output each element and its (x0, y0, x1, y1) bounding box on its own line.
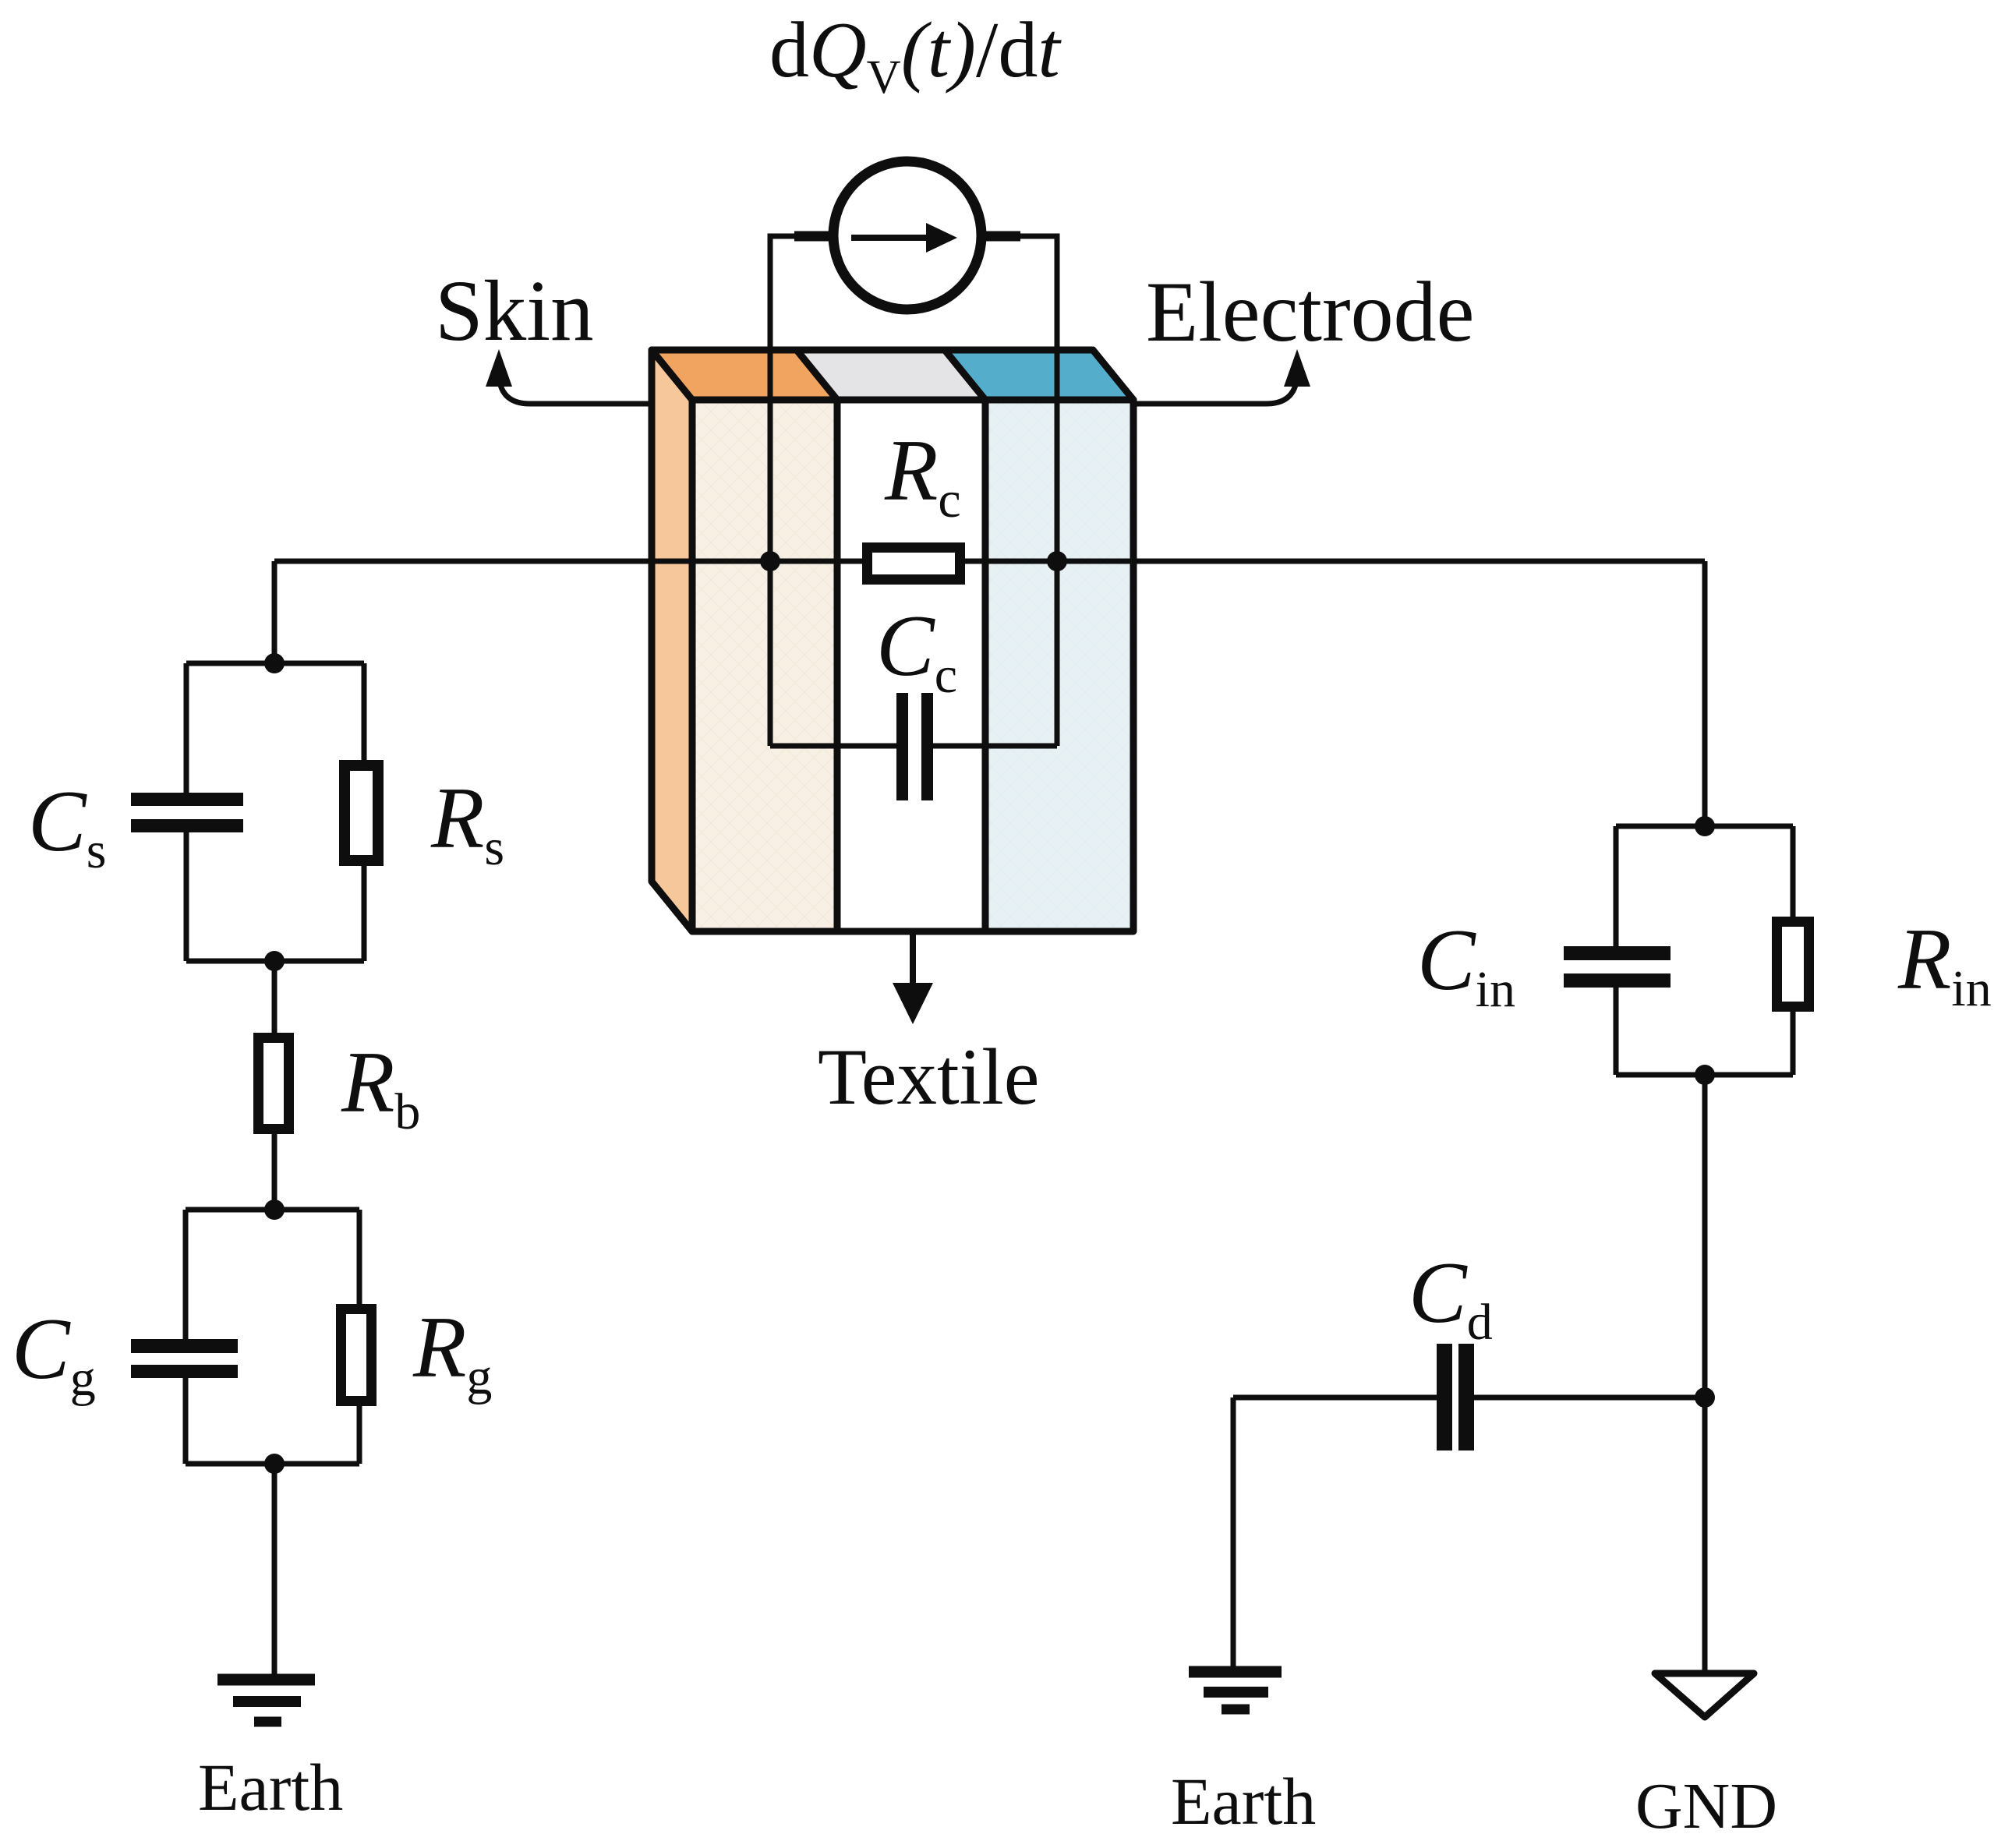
svg-text:Textile: Textile (818, 1033, 1040, 1122)
GND ground symbol triangle (1655, 1673, 1754, 1717)
wire Cd to earth right (1231, 1397, 1236, 1668)
current source circle (833, 161, 981, 309)
svg-text:Earth: Earth (1171, 1764, 1316, 1839)
GND label (1635, 1770, 1777, 1843)
wire Cin box to GND (1702, 1075, 1708, 1673)
capacitor Cg plates (131, 1339, 238, 1378)
Rg label (412, 1299, 492, 1405)
wire Rb to Cg Rg box (272, 1134, 278, 1210)
Textile label (818, 1033, 1040, 1122)
Skin pointer arrow (486, 349, 652, 404)
capacitor Cc connector wires (770, 744, 1057, 749)
capacitor Cd connector wires (1233, 1395, 1705, 1401)
svg-text:Skin: Skin (435, 263, 594, 359)
Electrode pointer arrow (1133, 349, 1310, 404)
Cs label (28, 773, 106, 879)
Rb label (341, 1034, 420, 1140)
Cd label (1409, 1245, 1493, 1351)
capacitor Cc plates (896, 693, 933, 800)
textile block top face middle slice (797, 350, 985, 400)
resistor Rin (1777, 922, 1809, 1007)
Earth label right (1171, 1764, 1316, 1839)
current source terminal stub left (794, 231, 832, 242)
junction node at Cd (1695, 1387, 1715, 1408)
junction node bottom of Cin Rin box (1695, 1065, 1715, 1085)
textile block left side face (652, 350, 692, 931)
Skin label (435, 263, 594, 359)
Electrode label (1146, 264, 1474, 359)
resistor Rb (259, 1038, 289, 1129)
Cin Rin parallel box wires (1616, 826, 1793, 1075)
junction node top of Cin Rin box (1695, 816, 1715, 836)
Rin label (1897, 911, 1992, 1017)
Cs Rs parallel box wires (186, 663, 364, 961)
current source dQV(t)/dt label (769, 6, 1062, 104)
capacitor Cin plates (1564, 946, 1671, 988)
wire main to Cin Rin box (1702, 561, 1708, 826)
wire main to Cs Rs box (272, 561, 278, 663)
resistor Rg (341, 1309, 372, 1401)
svg-text:Electrode: Electrode (1146, 264, 1474, 359)
capacitor Cd plates (1437, 1344, 1474, 1450)
resistor Rs (345, 765, 378, 860)
junction node bottom of Cg Rg box (264, 1454, 285, 1474)
main horizontal wire (274, 559, 1705, 564)
current source arrow (851, 223, 957, 253)
wire Cs box to Rb (272, 961, 278, 1033)
wire current source left lead (770, 236, 833, 746)
textile block front face outline (692, 400, 1133, 931)
current source terminal stub right (983, 231, 1020, 242)
textile block top face skin slice (652, 350, 837, 400)
Cg Rg parallel box wires (186, 1210, 359, 1464)
Earth label left (198, 1750, 343, 1825)
junction node right of Rc (1047, 551, 1067, 571)
junction node bottom of Cs Rs box (264, 951, 285, 971)
Cc label (876, 598, 957, 704)
svg-text:GND: GND (1635, 1770, 1777, 1843)
Rc label (884, 422, 961, 528)
textile block front skin layer (692, 400, 837, 931)
junction node left of Rc (760, 551, 780, 571)
earth ground symbol right (1189, 1672, 1282, 1709)
capacitor Cs plates (131, 793, 243, 832)
textile block front electrode layer (985, 400, 1133, 931)
textile block top face electrode slice (945, 350, 1133, 400)
textile block front middle white layer (837, 400, 985, 931)
svg-text:Earth: Earth (198, 1750, 343, 1825)
wire current source right lead (981, 236, 1057, 746)
Cin label (1417, 912, 1515, 1018)
Cg label (12, 1301, 96, 1407)
wire Cg box to earth (272, 1464, 278, 1677)
resistor Rc (868, 548, 960, 580)
junction node top of Cg Rg box (264, 1200, 285, 1220)
Textile pointer arrow (893, 931, 933, 1024)
svg-text:dQV(t)/dt: dQV(t)/dt (769, 6, 1062, 104)
junction node top of Cs Rs box (264, 653, 285, 673)
Rs label (430, 770, 504, 876)
earth ground symbol left (217, 1680, 315, 1722)
